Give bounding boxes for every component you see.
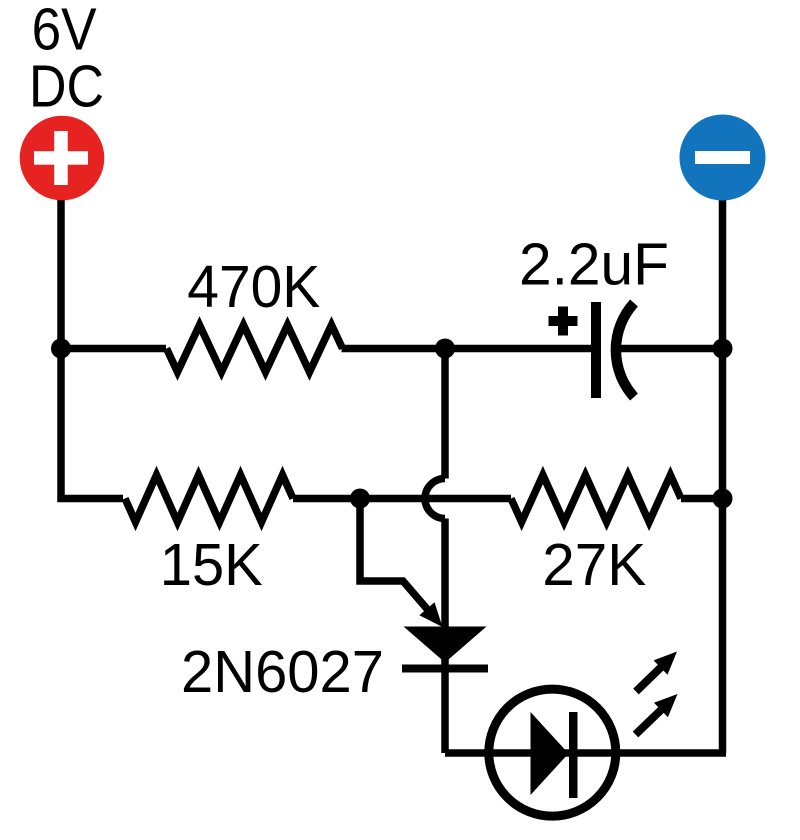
svg-text:15K: 15K (160, 532, 263, 598)
svg-text:DC: DC (29, 54, 104, 120)
svg-text:470K: 470K (187, 254, 320, 320)
svg-text:2N6027: 2N6027 (181, 639, 384, 705)
svg-text:2.2uF: 2.2uF (519, 232, 669, 298)
svg-text:27K: 27K (542, 532, 646, 598)
